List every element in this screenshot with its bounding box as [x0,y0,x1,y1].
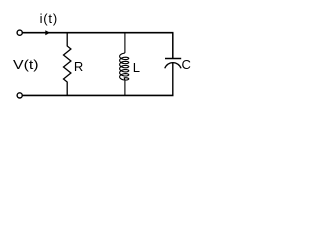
label i(t) [40,12,58,25]
wire capacitor top lead [172,33,174,59]
label R [74,60,83,73]
wire capacitor bottom lead [172,62,174,95]
label C [182,58,191,71]
terminal bottom-left [17,93,22,98]
wire top horizontal [23,32,174,34]
label L [133,61,140,74]
current arrow i(t) direction [45,30,50,35]
resistor R [64,33,71,95]
terminal top-left [17,30,22,35]
wire bottom horizontal [23,94,174,96]
capacitor C flat plate [165,58,181,60]
label V(t) [13,58,39,71]
capacitor C plate curved [165,63,181,69]
inductor L [120,33,129,95]
